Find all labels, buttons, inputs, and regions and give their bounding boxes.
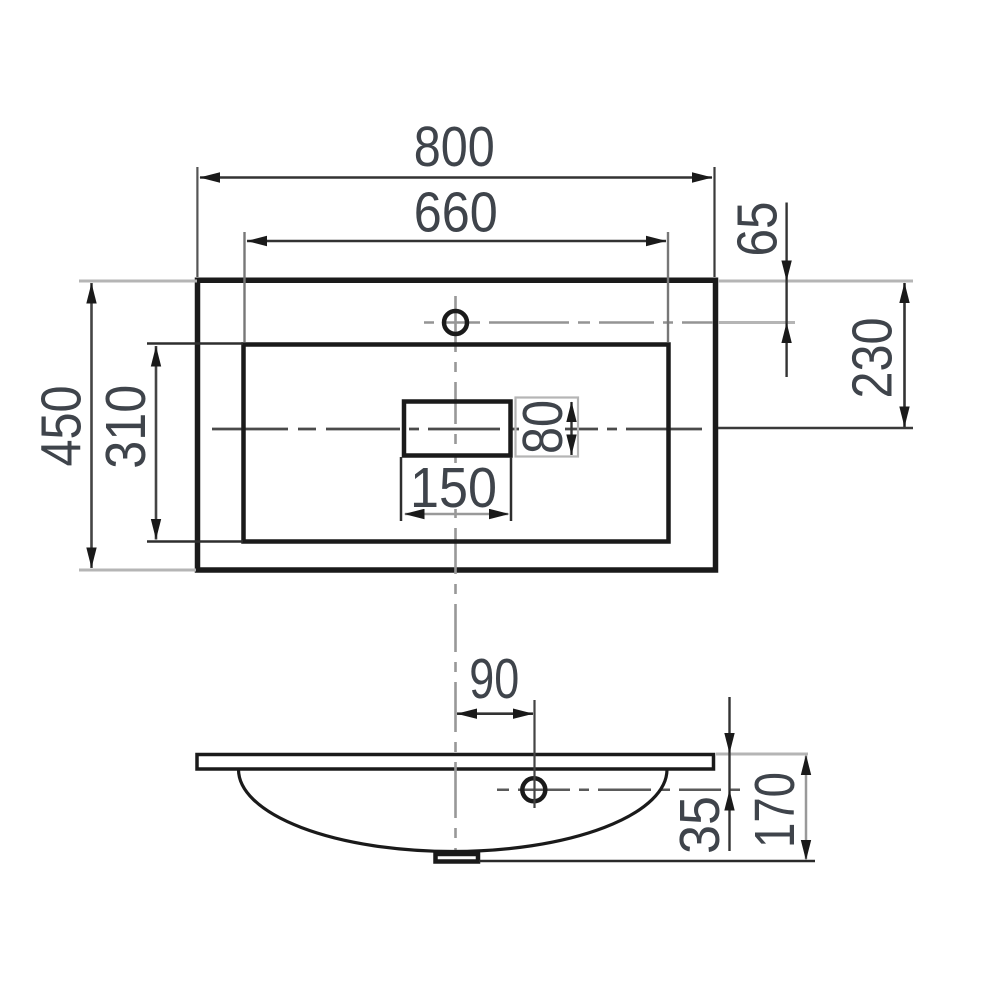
faucet centerline horizontal — [424, 321, 713, 324]
dimension 800 — [197, 115, 714, 277]
dimension 310 — [94, 344, 243, 542]
dimension 170 — [743, 755, 811, 861]
gray extension line plate top to 170 — [716, 753, 808, 756]
basin centerline extension right dark — [718, 427, 913, 430]
gray extension line 450 bottom — [79, 569, 196, 572]
svg-text:35: 35 — [668, 796, 732, 854]
svg-text:170: 170 — [743, 772, 807, 848]
inner basin rect — [244, 345, 669, 542]
svg-text:450: 450 — [30, 386, 94, 467]
svg-text:230: 230 — [841, 318, 905, 399]
svg-text:90: 90 — [469, 647, 519, 711]
side view hole centerline — [497, 789, 740, 792]
gray extension line faucet axis right — [718, 321, 795, 324]
dimension 35 — [668, 697, 735, 854]
faucet hole circle — [444, 311, 467, 334]
side view hole circle — [522, 778, 545, 801]
gray extension line 450 top — [79, 280, 197, 283]
dimension 660 — [245, 181, 669, 343]
overflow small rect — [404, 402, 511, 456]
side view countertop plate — [197, 755, 714, 770]
vertical centerline — [454, 296, 457, 851]
svg-text:800: 800 — [414, 115, 495, 179]
bowl curve side view — [239, 770, 668, 852]
svg-text:310: 310 — [94, 385, 158, 469]
drain fitting — [436, 854, 479, 862]
dimension 90 — [457, 647, 535, 808]
gray extension line top edge to 230 — [718, 280, 913, 283]
dimension 230 — [841, 283, 910, 428]
svg-text:65: 65 — [726, 202, 790, 257]
dimension 150 — [401, 456, 511, 521]
svg-text:80: 80 — [511, 400, 575, 454]
bottom extension line to 170 — [479, 860, 815, 863]
dimension 80 with gray frame — [511, 398, 578, 457]
svg-text:150: 150 — [410, 456, 497, 520]
dimension 450 — [30, 283, 97, 568]
svg-text:660: 660 — [414, 181, 498, 245]
basin centerline horizontal — [212, 428, 712, 431]
outer rect of washbasin top view — [198, 280, 716, 570]
dimension 65 — [726, 202, 792, 378]
